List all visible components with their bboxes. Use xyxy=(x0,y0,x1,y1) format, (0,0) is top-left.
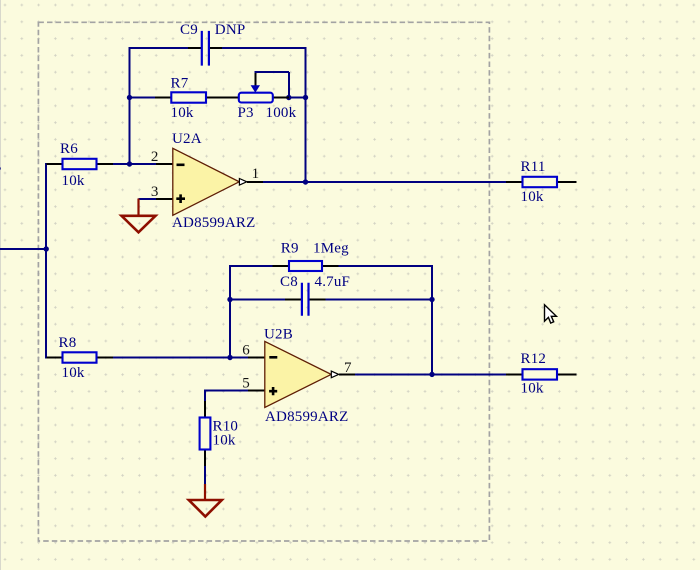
resistor R11 xyxy=(523,177,558,187)
node U2B output xyxy=(429,372,434,377)
svg-text:1Meg: 1Meg xyxy=(313,240,349,256)
svg-text:2: 2 xyxy=(151,149,159,165)
pins U2B xyxy=(248,358,355,391)
wire U2B feedback left vertical xyxy=(229,265,231,359)
resistor R6 xyxy=(63,159,97,169)
mouse cursor xyxy=(545,305,557,323)
op-amp U2B output bubble triangle xyxy=(331,371,338,378)
wire input left xyxy=(0,248,47,250)
pins P3 xyxy=(223,97,289,99)
svg-text:10k: 10k xyxy=(171,105,194,121)
svg-text:DNP: DNP xyxy=(215,22,246,38)
svg-text:R7: R7 xyxy=(171,75,189,91)
svg-text:P3: P3 xyxy=(238,105,254,121)
resistor R8 xyxy=(63,352,97,362)
svg-text:U2B: U2B xyxy=(264,326,293,342)
capacitor C9 plates xyxy=(202,31,209,66)
op-amp U2A body xyxy=(173,148,239,215)
op-amp U2B minus mark xyxy=(269,356,277,359)
wire U2B output row xyxy=(339,373,577,375)
svg-text:4.7uF: 4.7uF xyxy=(315,274,351,290)
svg-text:7: 7 xyxy=(344,360,352,376)
wire R10 to ground xyxy=(204,450,206,486)
wire U2B pin5 xyxy=(205,390,265,418)
pins R11 xyxy=(506,181,576,183)
svg-text:AD8599ARZ: AD8599ARZ xyxy=(265,409,348,425)
resistor R7 xyxy=(171,92,206,102)
pins R10 xyxy=(204,401,206,466)
wire feedback left vertical xyxy=(129,47,131,165)
svg-text:R11: R11 xyxy=(521,159,546,175)
pins R7 xyxy=(155,97,223,99)
svg-text:R12: R12 xyxy=(521,351,547,367)
node U2B pin6 xyxy=(227,355,232,360)
node U2A pin2 xyxy=(127,161,132,166)
pins R12 xyxy=(506,373,576,375)
wire R6 to U2A pin2 xyxy=(47,163,173,165)
svg-text:C8: C8 xyxy=(280,274,298,290)
potentiometer P3 xyxy=(239,93,273,103)
wire U2A pin3 xyxy=(139,198,173,200)
svg-text:10k: 10k xyxy=(521,189,544,205)
pins C9 xyxy=(188,47,222,49)
potentiometer P3 wiper arrowhead xyxy=(251,85,260,92)
resistor R10 (vertical) xyxy=(200,418,211,450)
pins C8 xyxy=(285,299,326,301)
dashed selection border xyxy=(38,22,489,541)
pins R8 xyxy=(47,357,114,359)
ground (U2A pin3) xyxy=(122,199,156,233)
wire U2A output row xyxy=(247,181,577,183)
node C8 right xyxy=(429,297,434,302)
black pin stubs xyxy=(47,48,577,466)
node R7 row right xyxy=(303,95,308,100)
node input tee xyxy=(44,246,49,251)
wire feedback right vertical xyxy=(305,47,307,183)
pin P3 wiper stem xyxy=(254,73,256,86)
svg-text:3: 3 xyxy=(151,184,159,200)
pins U2A xyxy=(156,164,263,199)
svg-text:R6: R6 xyxy=(60,141,78,157)
capacitor C8 plates xyxy=(302,283,309,316)
svg-text:R9: R9 xyxy=(281,240,299,256)
op-amp U2A output bubble triangle xyxy=(239,179,246,186)
wire U2B feedback top row R9 xyxy=(230,265,432,267)
op-amp U2B plus mark xyxy=(269,387,277,395)
ground (below R10) xyxy=(189,484,222,517)
svg-text:100k: 100k xyxy=(266,105,297,121)
svg-text:10k: 10k xyxy=(62,173,85,189)
svg-text:F: F xyxy=(0,165,2,181)
wire R7 P3 row xyxy=(130,97,306,99)
pins R6 xyxy=(47,163,114,165)
svg-text:R8: R8 xyxy=(59,335,77,351)
node R7 left xyxy=(127,95,132,100)
wire R8 to U2B pin6 xyxy=(47,357,265,359)
svg-text:10k: 10k xyxy=(521,381,544,397)
node C8 left xyxy=(227,297,232,302)
svg-text:U2A: U2A xyxy=(172,131,202,147)
op-amp U2A minus mark xyxy=(177,164,185,167)
svg-text:C9: C9 xyxy=(180,22,198,38)
wire U2B feedback right vertical xyxy=(431,265,433,375)
svg-text:6: 6 xyxy=(242,343,250,359)
wire left vertical bus xyxy=(46,163,63,359)
sheet left edge line xyxy=(0,0,1,570)
resistor R12 xyxy=(523,369,558,379)
svg-text:AD8599ARZ: AD8599ARZ xyxy=(172,215,255,231)
resistor R9 xyxy=(289,261,322,271)
wire C9 row xyxy=(130,47,306,49)
svg-text:1: 1 xyxy=(252,166,260,182)
op-amp U2B body xyxy=(265,341,331,407)
op-amp U2A plus mark xyxy=(176,194,185,203)
svg-text:10k: 10k xyxy=(62,365,85,381)
wire P3 wiper loop xyxy=(254,72,288,97)
node U2A output xyxy=(303,179,308,184)
pins R9 xyxy=(273,265,339,267)
wire C8 row xyxy=(230,299,432,301)
svg-text:10k: 10k xyxy=(213,432,236,448)
svg-text:5: 5 xyxy=(242,375,250,391)
node P3 wiper join xyxy=(286,95,291,100)
